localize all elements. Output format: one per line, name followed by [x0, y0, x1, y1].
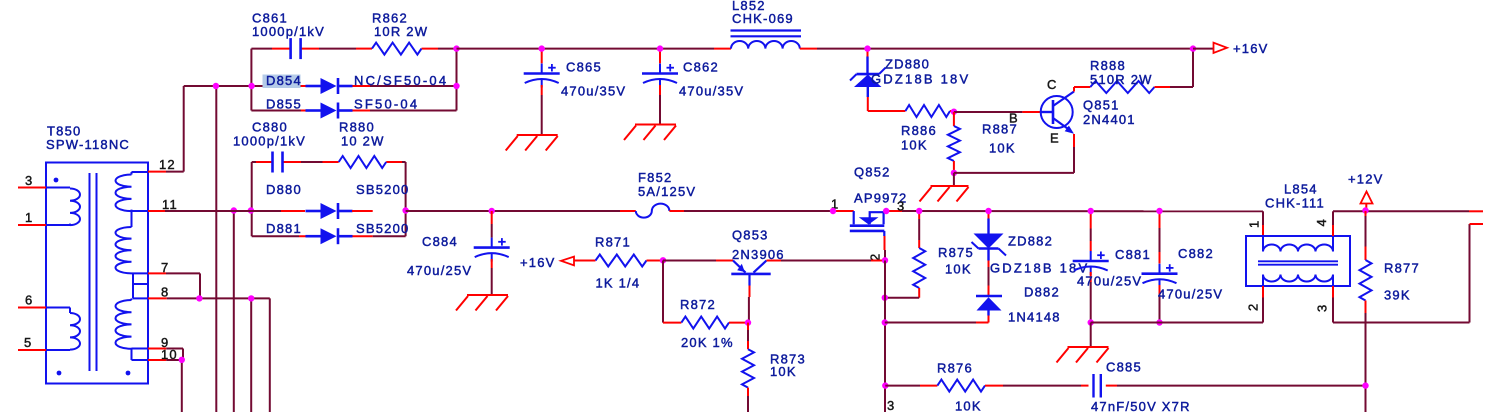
node R875 bottom junction	[882, 295, 888, 301]
wire L854 pin4 to rail	[1332, 211, 1334, 236]
capacitor C882	[1142, 211, 1224, 323]
diode D881	[266, 221, 409, 244]
diode D855	[266, 97, 419, 119]
wire pin7 drop to pin8 row	[166, 273, 200, 298]
wire Q851 collector	[1074, 87, 1090, 92]
svg-text:5A/125V: 5A/125V	[638, 184, 696, 199]
node C862 rail junction	[657, 45, 663, 51]
wire main rail middle segment	[406, 210, 636, 212]
wire D854-block left rail	[250, 49, 252, 111]
resistor R877	[1360, 211, 1420, 412]
svg-text:+16V: +16V	[1233, 41, 1269, 56]
svg-text:1N4148: 1N4148	[1008, 310, 1061, 325]
power +12V	[1348, 172, 1384, 209]
svg-text:R875: R875	[938, 245, 974, 260]
capacitor C861	[252, 11, 325, 60]
resistor R872	[663, 297, 748, 350]
T850 pin 10 stub	[148, 347, 178, 362]
svg-text:R872: R872	[680, 297, 716, 312]
ground under C884	[467, 294, 508, 296]
svg-text:D881: D881	[266, 221, 302, 236]
node R877/C885 junction	[1362, 382, 1368, 388]
svg-text:2: 2	[1246, 303, 1261, 311]
node C865 rail junction	[539, 45, 545, 51]
capacitor C884	[407, 211, 510, 295]
resistor R862	[372, 11, 428, 55]
svg-text:ZD880: ZD880	[885, 57, 930, 72]
T850 pin 7 stub	[148, 260, 169, 275]
fuse F852	[636, 170, 696, 218]
capacitor C862	[642, 49, 744, 125]
node ZD882 rail junction	[985, 208, 991, 214]
inductor L854	[1246, 182, 1351, 313]
wire bottom right rail	[1333, 322, 1470, 324]
svg-text:6: 6	[25, 293, 33, 308]
svg-text:E: E	[1050, 131, 1060, 146]
wire C880 row	[252, 161, 406, 163]
node D854 left-rail junction	[248, 83, 254, 89]
svg-text:10K: 10K	[955, 399, 982, 412]
node R872/R873 junction	[745, 319, 751, 325]
svg-text:D854: D854	[266, 73, 302, 88]
svg-text:1K 1/4: 1K 1/4	[596, 276, 641, 291]
wire R871 node drop	[662, 261, 664, 323]
svg-text:R876: R876	[937, 361, 973, 376]
svg-text:C862: C862	[683, 60, 719, 75]
resistor R875	[885, 211, 974, 298]
node +12V rail junction	[1362, 207, 1368, 213]
wire Q853 base drop	[748, 286, 751, 323]
resistor R876	[885, 361, 1003, 412]
T850 pin 9 stub	[148, 335, 169, 350]
node top rail / right rail junction	[453, 45, 459, 51]
svg-text:510R 2W: 510R 2W	[1090, 72, 1153, 87]
svg-text:R887: R887	[982, 122, 1018, 137]
node Q852 pin3 junction	[883, 208, 889, 214]
wire ZD880 to R888 corner	[868, 48, 1194, 50]
wire drop from D854 row	[215, 86, 217, 412]
node D854 row left junction	[213, 83, 219, 89]
svg-text:10 2W: 10 2W	[341, 134, 385, 149]
svg-text:SF50-04: SF50-04	[354, 97, 419, 112]
wire D881 row	[252, 235, 406, 237]
svg-text:10K: 10K	[770, 364, 797, 379]
node R875 rail junction	[916, 208, 922, 214]
ground under C881	[1057, 323, 1109, 363]
svg-text:C881: C881	[1115, 247, 1151, 262]
node C882 bottom junction	[1156, 319, 1162, 325]
node R888 rail junction	[1190, 45, 1196, 51]
wire top rail C865 to C862	[542, 48, 660, 50]
wire D855 row	[251, 110, 456, 112]
svg-text:SB5200: SB5200	[356, 182, 409, 197]
inductor L852	[731, 0, 802, 49]
wire bottom mid rail	[1091, 322, 1263, 324]
wire pin12 to D854 row	[166, 86, 251, 172]
diode D880	[266, 182, 409, 219]
resistor R871	[574, 235, 663, 291]
T850 pin 11 stub	[148, 197, 178, 212]
T850 reference label	[46, 124, 130, 152]
resistor R873	[742, 323, 806, 412]
wire L854 pin2 drop	[1262, 286, 1264, 323]
wire fuse to Q852 pin1	[669, 210, 833, 212]
svg-text:R877: R877	[1384, 261, 1420, 276]
node R886/R887 base junction	[951, 109, 957, 115]
svg-text:NC/SF50-04: NC/SF50-04	[354, 73, 448, 88]
wire base node to Q851	[954, 111, 1041, 126]
T850 pin 8 stub	[148, 285, 169, 300]
svg-text:C885: C885	[1106, 360, 1142, 375]
wire pin9 jog	[166, 349, 183, 360]
svg-text:20K 1%: 20K 1%	[681, 335, 734, 350]
node C882 rail junction	[1156, 208, 1162, 214]
svg-text:10K: 10K	[945, 262, 972, 277]
ground under C862	[635, 124, 676, 126]
wire top rail C862 to L852	[660, 48, 731, 50]
svg-text:1000p/1kV: 1000p/1kV	[252, 24, 325, 39]
wire D854 row	[251, 85, 456, 87]
svg-text:Q853: Q853	[732, 228, 769, 243]
svg-text:470u/35V: 470u/35V	[561, 84, 626, 99]
wire pin8 row	[167, 298, 270, 412]
svg-text:470u/25V: 470u/25V	[1077, 274, 1142, 289]
svg-text:Q852: Q852	[854, 165, 891, 180]
wire L854 pin3 drop	[1332, 286, 1334, 323]
svg-text:F852: F852	[638, 170, 672, 185]
node D854 right-rail junction	[453, 83, 459, 89]
node pin9/pin10 junction	[179, 357, 185, 363]
wire rail to +16V arrow	[1193, 48, 1214, 50]
svg-text:3: 3	[887, 398, 895, 412]
diode D882	[976, 285, 1061, 325]
svg-text:4: 4	[1314, 218, 1329, 226]
node C884 rail junction	[489, 208, 495, 214]
transistor Q853	[731, 228, 784, 286]
wire drop from main rail	[233, 211, 235, 412]
capacitor C885	[1003, 360, 1366, 412]
svg-text:11: 11	[162, 197, 178, 212]
wire R871 node to Q853	[663, 260, 733, 262]
node ZD880 rail junction	[864, 45, 870, 51]
node x885/bottom-rail junction	[882, 319, 888, 325]
capacitor C880	[233, 120, 306, 173]
wire D882 anode to x885	[885, 322, 989, 324]
node R887 bottom junction	[951, 170, 957, 176]
svg-text:1000p/1kV: 1000p/1kV	[233, 134, 306, 149]
power +16V left	[520, 255, 574, 270]
wire Q851 emitter	[954, 134, 1074, 173]
capacitor C865	[524, 49, 627, 135]
svg-text:Q851: Q851	[1083, 98, 1120, 113]
svg-text:CHK-111: CHK-111	[1265, 196, 1325, 211]
node C881 rail junction	[1088, 208, 1094, 214]
svg-text:R880: R880	[339, 120, 375, 135]
svg-text:GDZ18B 18V: GDZ18B 18V	[871, 72, 970, 87]
T850 pin 5 stub	[18, 335, 46, 350]
node Q852 pin1 junction	[830, 208, 836, 214]
wire top right rail	[1333, 210, 1483, 212]
wire C861 row	[251, 48, 456, 50]
svg-text:GDZ18B 18V: GDZ18B 18V	[990, 261, 1089, 276]
wire L852 to ZD880	[800, 48, 868, 50]
svg-text:CHK-069: CHK-069	[732, 11, 794, 26]
svg-text:1: 1	[25, 210, 33, 225]
svg-text:1: 1	[1247, 220, 1262, 228]
svg-text:3: 3	[25, 173, 33, 188]
node main rail x405 junction	[402, 207, 408, 213]
capacitor C881	[1073, 211, 1151, 323]
svg-text:470u/25V: 470u/25V	[1158, 287, 1223, 302]
svg-text:47nF/50V X7R: 47nF/50V X7R	[1091, 399, 1191, 412]
transistor Q852 (P-MOSFET)	[831, 165, 907, 262]
zener diode ZD880	[850, 49, 970, 111]
svg-text:C882: C882	[1178, 246, 1214, 261]
wire top rail to C865	[457, 48, 542, 50]
wire x885 vertical	[885, 261, 895, 412]
svg-text:+16V: +16V	[520, 255, 556, 270]
node main rail x251 junction	[248, 207, 254, 213]
node pin7/pin8 junction	[196, 295, 202, 301]
wire main rail left segment	[165, 210, 281, 212]
svg-text:12: 12	[159, 157, 176, 172]
wire C880-block left rail	[251, 162, 253, 236]
svg-text:D855: D855	[266, 97, 302, 112]
svg-text:470u/25V: 470u/25V	[407, 263, 472, 278]
svg-text:C884: C884	[422, 234, 458, 249]
ground under R887	[920, 173, 969, 202]
transistor Q851	[1041, 77, 1136, 146]
wire Q853 collector to Q852 pin2	[767, 260, 886, 262]
svg-text:SPW-118NC: SPW-118NC	[46, 137, 130, 152]
power +16V right	[1214, 41, 1269, 56]
resistor R880	[339, 120, 387, 169]
wire D854-block right rail	[456, 49, 458, 111]
svg-text:39K: 39K	[1384, 288, 1411, 303]
transformer T850	[46, 163, 148, 384]
wire drop from pin8 row	[250, 298, 252, 412]
T850 pin 6 stub	[18, 293, 46, 308]
node R871/R872 junction	[660, 257, 666, 263]
svg-text:10K: 10K	[989, 141, 1016, 156]
T850 pin 1 stub	[18, 210, 46, 225]
node x885/R876 junction	[882, 382, 888, 388]
zener diode ZD882	[972, 211, 1090, 286]
diode D854	[263, 73, 449, 94]
resistor R886	[868, 105, 954, 153]
resistor R887	[948, 112, 1018, 173]
svg-text:C: C	[1047, 77, 1058, 92]
svg-text:R886: R886	[901, 123, 937, 138]
svg-text:L854: L854	[1284, 182, 1318, 197]
resistor R888	[1090, 58, 1193, 93]
svg-text:D880: D880	[266, 182, 302, 197]
node main rail x234 junction	[231, 207, 237, 213]
svg-text:8: 8	[161, 285, 169, 300]
svg-text:+12V: +12V	[1348, 172, 1384, 187]
svg-text:D882: D882	[1024, 285, 1060, 300]
node Q852 pin2 junction	[882, 257, 888, 263]
svg-text:R888: R888	[1090, 58, 1126, 73]
svg-text:R871: R871	[595, 235, 631, 250]
svg-text:SB5200: SB5200	[356, 221, 409, 236]
svg-text:5: 5	[24, 335, 32, 350]
wire pin10 drop	[166, 360, 182, 412]
wire Q852 pin3 to R875	[902, 210, 1263, 212]
svg-text:3: 3	[1315, 304, 1330, 312]
wire right edge drop	[1470, 224, 1484, 323]
wire rail corner into L854 pin1	[1262, 211, 1264, 236]
node C881 bottom junction	[1088, 319, 1094, 325]
svg-text:C880: C880	[252, 120, 288, 135]
svg-text:ZD882: ZD882	[1008, 234, 1053, 249]
ground under C865	[517, 134, 558, 136]
node pin8-row drop junction	[248, 295, 254, 301]
wire C880-block right rail	[405, 162, 407, 236]
svg-text:10R 2W: 10R 2W	[374, 24, 428, 39]
wire R888 riser	[1192, 49, 1194, 87]
svg-text:C865: C865	[566, 60, 602, 75]
svg-text:2N4401: 2N4401	[1083, 112, 1136, 127]
T850 pin 3 stub	[18, 173, 46, 188]
svg-text:470u/35V: 470u/35V	[679, 84, 744, 99]
svg-text:10K: 10K	[901, 138, 928, 153]
T850 pin 12 stub	[148, 157, 176, 172]
